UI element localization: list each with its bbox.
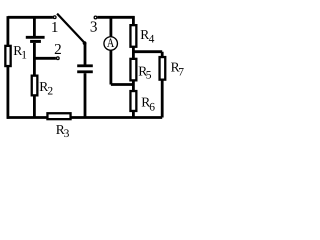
switch pivot junction dot [83, 41, 87, 45]
resistor R5 [130, 59, 136, 81]
wire R7 branch [161, 52, 164, 118]
ammeter A1 letter [107, 36, 115, 50]
resistor R2 [32, 76, 38, 96]
switch contact 2 [56, 57, 59, 60]
wire battery branch lower through R2 to bottom [33, 43, 36, 118]
svg-text:1: 1 [21, 49, 27, 61]
wire top-right segment [97, 16, 134, 19]
svg-text:2: 2 [47, 86, 53, 98]
switch contact 1 [53, 16, 56, 19]
wire battery branch upper [33, 17, 36, 36]
svg-text:7: 7 [178, 67, 184, 79]
wire left border [7, 16, 10, 119]
resistor R1 [5, 46, 10, 66]
wire to switch contact 2 [34, 57, 56, 60]
capacitor C1 bottom plate [77, 70, 93, 73]
wire junction R4 to R7 [133, 50, 162, 53]
svg-text:A: A [107, 36, 115, 50]
resistor R7 [160, 57, 166, 80]
svg-text:6: 6 [149, 102, 155, 114]
svg-text:3: 3 [90, 19, 98, 36]
switch contact 3 [94, 16, 97, 19]
resistor R4 [130, 25, 136, 47]
wire ammeter to R5-R6 node [111, 83, 133, 86]
wire ammeter branch upper [110, 17, 113, 37]
ammeter A1 body [104, 37, 118, 51]
wire top-left segment [8, 16, 53, 19]
svg-text:4: 4 [149, 34, 155, 46]
resistor R6 [130, 91, 136, 111]
battery B1 short plate [30, 40, 41, 43]
wire capacitor branch lower [84, 73, 87, 117]
wire capacitor branch upper [84, 43, 87, 65]
wire bottom border [7, 116, 163, 119]
svg-text:5: 5 [146, 70, 152, 82]
svg-text:1: 1 [51, 19, 59, 36]
switch arm [57, 14, 84, 43]
capacitor C1 top plate [77, 64, 93, 67]
wire ammeter branch lower [110, 50, 113, 84]
wire right branch R4-R5-R6 [132, 16, 135, 117]
svg-text:3: 3 [64, 128, 70, 140]
svg-text:2: 2 [54, 41, 62, 58]
resistor R3 [47, 113, 70, 119]
battery B1 long plate [26, 36, 45, 39]
